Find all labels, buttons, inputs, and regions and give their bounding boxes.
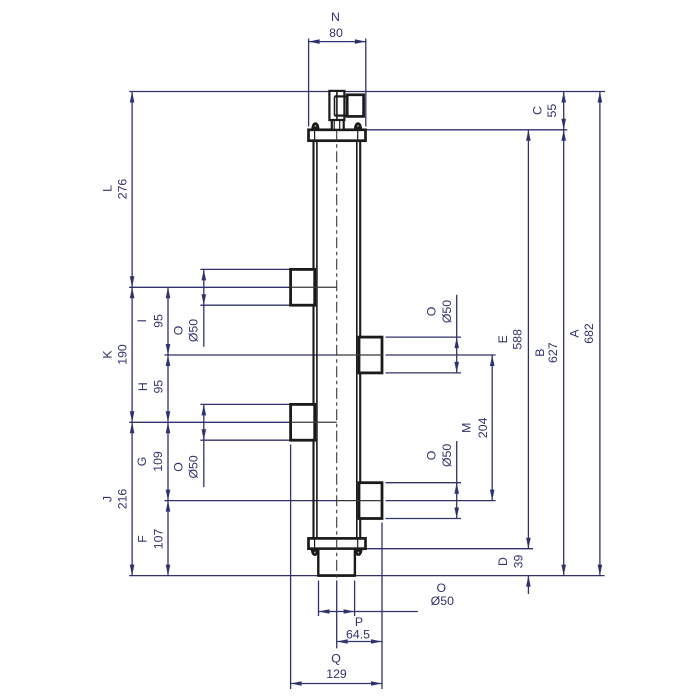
svg-text:682: 682	[582, 323, 596, 344]
svg-text:Ø50: Ø50	[186, 319, 200, 342]
svg-text:K: K	[100, 350, 114, 359]
svg-text:Q: Q	[331, 652, 341, 666]
svg-text:E: E	[496, 335, 510, 343]
svg-text:109: 109	[151, 451, 165, 472]
svg-text:I: I	[135, 319, 149, 322]
svg-text:Ø50: Ø50	[440, 444, 454, 467]
svg-text:J: J	[100, 496, 114, 502]
svg-text:M: M	[460, 423, 474, 433]
svg-text:H: H	[136, 382, 150, 391]
svg-text:588: 588	[511, 329, 525, 350]
svg-text:C: C	[531, 106, 545, 115]
svg-text:O: O	[171, 326, 185, 336]
svg-text:B: B	[533, 349, 547, 357]
svg-text:64.5: 64.5	[346, 627, 370, 641]
svg-text:107: 107	[152, 529, 166, 550]
svg-text:O: O	[425, 451, 439, 461]
svg-text:95: 95	[151, 314, 165, 328]
svg-text:39: 39	[512, 555, 526, 569]
svg-text:D: D	[496, 557, 510, 566]
svg-text:L: L	[100, 185, 114, 192]
svg-text:216: 216	[116, 489, 130, 510]
svg-text:204: 204	[476, 417, 490, 438]
svg-text:80: 80	[329, 26, 343, 40]
svg-text:55: 55	[545, 104, 559, 118]
svg-text:129: 129	[326, 667, 347, 681]
svg-text:627: 627	[546, 342, 560, 363]
svg-text:Ø50: Ø50	[186, 455, 200, 478]
svg-text:O: O	[425, 307, 439, 317]
svg-text:190: 190	[116, 344, 130, 365]
svg-text:95: 95	[151, 380, 165, 394]
svg-text:Ø50: Ø50	[440, 300, 454, 323]
svg-text:F: F	[136, 535, 150, 543]
svg-text:G: G	[135, 457, 149, 467]
svg-text:A: A	[568, 329, 582, 338]
svg-text:N: N	[331, 10, 340, 24]
svg-text:O: O	[171, 462, 185, 472]
svg-text:Ø50: Ø50	[431, 594, 454, 608]
svg-text:276: 276	[116, 179, 130, 200]
